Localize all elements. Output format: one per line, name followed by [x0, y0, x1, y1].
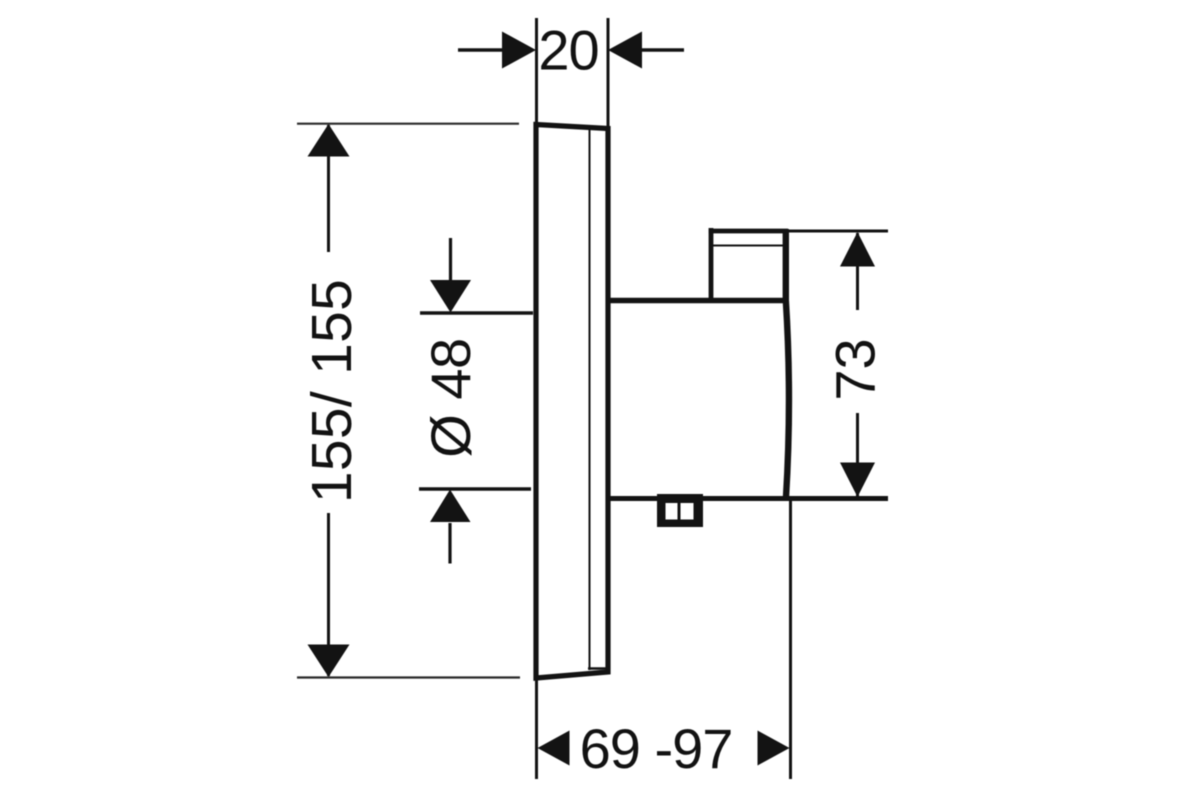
- valve body top edge: [606, 298, 786, 304]
- dimension 20 left extension line: [535, 18, 538, 122]
- dimension diameter 48 lower tail line: [448, 523, 451, 564]
- dimension 155/155 line upper segment: [327, 125, 330, 252]
- svg-text:Ø 48: Ø 48: [419, 338, 482, 457]
- dimension diameter 48 lower arrow: [430, 490, 471, 523]
- svg-text:155/ 155: 155/ 155: [300, 279, 364, 503]
- dimension 69-97 right extension line: [789, 500, 792, 779]
- outlet screw block: [657, 494, 703, 527]
- dimension 73 top arrow: [840, 232, 875, 267]
- dimension 69-97 left extension line: [535, 678, 538, 779]
- dimension diameter 48 lower extension line: [419, 487, 531, 490]
- dimension diameter 48 upper arrow: [430, 280, 471, 313]
- dimension 69-97 right arrow: [758, 731, 790, 766]
- dimension 20 left arrow: [502, 32, 536, 69]
- dimension 155/155 top extension line: [297, 123, 519, 125]
- dimension diameter 48 upper tail line: [449, 238, 452, 282]
- 73-dim upper extension line: [788, 230, 888, 233]
- svg-text:20: 20: [538, 18, 598, 81]
- dimension 20 right arrow: [608, 32, 642, 69]
- dimension 69-97 left arrow: [538, 731, 570, 766]
- dimension 73 line upper segment: [856, 233, 859, 310]
- dimension 73 line lower segment: [856, 413, 859, 496]
- cartridge stem cap seam: [713, 245, 784, 247]
- valve body right edge (slight bulge): [786, 229, 789, 497]
- cartridge stem left edge: [709, 228, 714, 302]
- cartridge stem top edge: [709, 229, 788, 234]
- dimension 20 right extension line: [607, 18, 610, 126]
- wall plate bottom step line: [588, 667, 606, 669]
- svg-text:73: 73: [824, 338, 887, 400]
- dimension 20 right line: [641, 48, 684, 51]
- dimension 155/155 line lower segment: [327, 513, 330, 676]
- svg-text:69 -97: 69 -97: [580, 717, 733, 780]
- wall plate inner face line: [589, 129, 591, 670]
- dimension 20 left line: [458, 48, 503, 51]
- valve body bottom edge with 73-dim lower extension: [606, 496, 888, 501]
- dimension 155/155 top arrow: [308, 124, 350, 157]
- dimension diameter 48 upper extension line: [420, 311, 533, 314]
- wall plate (escutcheon) outline: [536, 125, 608, 679]
- dimension 155/155 bottom arrow: [308, 645, 350, 678]
- dimension 155/155 bottom extension line: [297, 676, 520, 678]
- dimension 73 bottom arrow: [840, 463, 875, 498]
